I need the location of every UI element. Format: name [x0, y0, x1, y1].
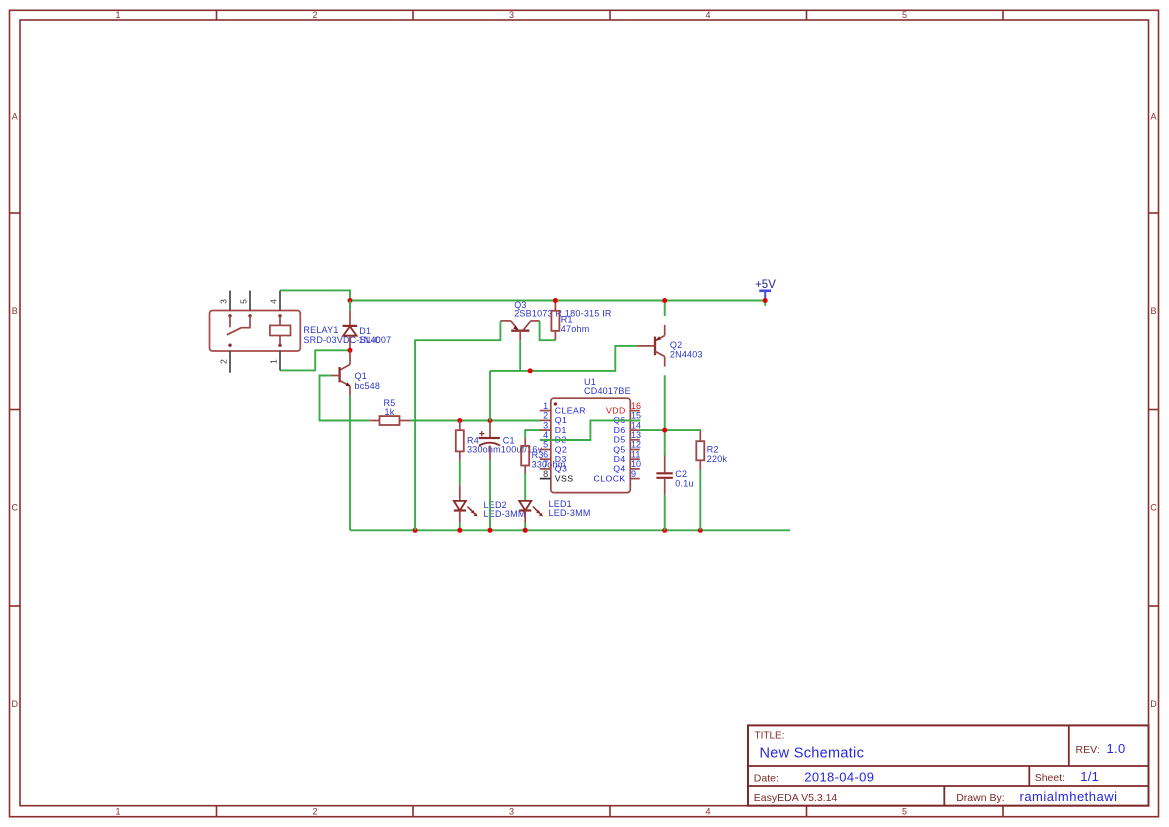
svg-text:C: C: [11, 503, 18, 513]
svg-text:C: C: [1150, 503, 1157, 513]
U1 pin 13 stub: [630, 439, 640, 441]
svg-text:D1: D1: [555, 425, 567, 435]
svg-text:4: 4: [705, 807, 710, 817]
diode D1: [343, 301, 358, 351]
svg-text:REV:: REV:: [1076, 744, 1100, 756]
svg-text:B: B: [12, 306, 18, 316]
svg-text:RELAY1: RELAY1: [303, 325, 338, 335]
svg-text:Date:: Date:: [754, 773, 779, 785]
U1 pin 8 stub: [540, 478, 551, 480]
relay pin 4 line: [279, 291, 281, 311]
title block sheet divider: [1028, 766, 1030, 786]
svg-text:10: 10: [631, 459, 641, 469]
frame tick top 1: [216, 10, 218, 20]
U1 pin 7 stub: [540, 468, 551, 470]
svg-text:D5: D5: [614, 435, 626, 445]
node rail junction R2: [698, 528, 703, 533]
svg-text:Q3: Q3: [555, 464, 568, 474]
frame tick right 2: [1149, 409, 1159, 411]
frame column numbers bottom: [115, 807, 907, 817]
relay pin 5 line: [249, 291, 251, 311]
svg-text:1.0: 1.0: [1107, 741, 1126, 756]
svg-text:3: 3: [543, 420, 548, 430]
wire ground rail bottom: [350, 529, 790, 531]
transistor Q1: [331, 350, 351, 395]
relay contact dots: [228, 314, 281, 347]
wire relay pin1 to D1 bottom: [280, 350, 350, 370]
svg-text:16: 16: [631, 401, 641, 411]
LED1: [519, 501, 543, 523]
U1 pin names right: [594, 405, 626, 483]
U1 pin 2 stub: [540, 419, 551, 421]
svg-text:1k: 1k: [385, 407, 395, 417]
U1 pin 15 stub: [630, 419, 640, 421]
wire Q3 emitter route to rail: [415, 322, 500, 531]
wire +5V rail: [350, 300, 765, 302]
svg-text:LED-3MM: LED-3MM: [549, 508, 591, 518]
U1 pin 11 stub: [630, 458, 640, 460]
svg-text:2: 2: [219, 359, 229, 364]
U1 pin names left: [555, 405, 586, 483]
relay switch lever: [227, 328, 242, 335]
svg-text:D: D: [1150, 699, 1157, 709]
resistor R2: [696, 431, 704, 470]
wire C2 to rail: [664, 495, 666, 531]
wire C1 to rail: [489, 460, 491, 531]
svg-text:14: 14: [631, 420, 641, 430]
svg-text:5: 5: [902, 807, 907, 817]
frame tick top 4: [806, 10, 808, 20]
svg-text:C2: C2: [675, 469, 687, 479]
wire LED2 to rail: [459, 523, 461, 530]
svg-text:6: 6: [543, 449, 548, 459]
svg-text:3: 3: [509, 807, 514, 817]
frame tick bottom 2: [412, 806, 414, 817]
wire R5 to U1 pin2: [410, 420, 541, 422]
U1 pin 6 stub: [540, 458, 551, 460]
relay coil box: [270, 325, 291, 335]
wire Q1 base route: [320, 376, 370, 421]
svg-text:Sheet:: Sheet:: [1035, 772, 1065, 784]
U1 pin 5 stub: [540, 449, 551, 451]
svg-text:4: 4: [543, 430, 548, 440]
IC U1 body: [551, 398, 631, 492]
svg-text:B: B: [1150, 306, 1156, 316]
svg-text:5: 5: [543, 440, 548, 450]
wire Q2 emitter down: [664, 375, 666, 455]
wire base net horizontal: [490, 346, 637, 371]
wire Q3 base net vertical to C1: [489, 371, 491, 421]
svg-text:Q1: Q1: [555, 415, 568, 425]
node D6 junction: [662, 428, 667, 433]
capacitor C2: [656, 456, 672, 495]
svg-text:CLEAR: CLEAR: [555, 405, 586, 415]
wire Q6 to D2 feedback: [540, 420, 640, 440]
wire Q3 base down: [519, 340, 521, 371]
relay RELAY1 body: [210, 311, 301, 352]
svg-text:D4: D4: [614, 454, 626, 464]
svg-text:CD4017BE: CD4017BE: [584, 386, 631, 396]
svg-text:D3: D3: [555, 454, 567, 464]
title block row line 2: [748, 785, 1149, 787]
U1 pin numbers right: [631, 401, 641, 479]
svg-text:CLOCK: CLOCK: [594, 473, 626, 483]
svg-text:4: 4: [269, 299, 279, 304]
title block drawnby divider: [943, 786, 945, 806]
svg-text:New Schematic: New Schematic: [760, 745, 865, 761]
svg-text:4: 4: [705, 10, 710, 20]
frame tick top 5: [1002, 10, 1004, 20]
U1 pin 3 stub: [540, 429, 551, 431]
node base net junction: [528, 368, 533, 373]
svg-text:11: 11: [631, 449, 640, 459]
svg-text:9: 9: [631, 469, 636, 479]
svg-text:A: A: [12, 112, 18, 122]
node rail/D1 junction: [348, 298, 353, 303]
frame tick bottom 1: [216, 806, 218, 817]
frame tick bottom 4: [806, 806, 808, 817]
title block row line 1: [748, 765, 1149, 767]
svg-text:1/1: 1/1: [1080, 769, 1099, 784]
relay switch stub pin5: [241, 316, 250, 328]
relay coil stub bottom: [279, 336, 281, 346]
svg-text:Q1: Q1: [355, 371, 367, 381]
node Q2 collector junction: [662, 298, 667, 303]
svg-text:ramialmhethawi: ramialmhethawi: [1020, 789, 1118, 804]
U1 pin 12 stub: [630, 449, 640, 451]
IC U1 pin1 mark: [554, 402, 557, 405]
svg-text:330ohm: 330ohm: [467, 444, 501, 454]
title block rev divider: [1068, 725, 1070, 766]
svg-text:220k: 220k: [707, 454, 728, 464]
svg-text:1: 1: [115, 807, 120, 817]
relay pin 1 line: [279, 351, 281, 370]
node D1 bottom junction: [348, 348, 353, 353]
wire D6 row: [640, 429, 701, 432]
svg-text:VDD: VDD: [606, 405, 626, 415]
power +5V symbol: [755, 279, 776, 306]
node rail junction C1: [488, 528, 493, 533]
svg-text:2018-04-09: 2018-04-09: [804, 770, 874, 785]
svg-text:Drawn By:: Drawn By:: [956, 792, 1004, 804]
node +5V junction: [763, 298, 768, 303]
resistor R3: [521, 438, 529, 473]
wire R2 to rail: [699, 470, 701, 530]
svg-text:VSS: VSS: [555, 473, 574, 483]
svg-text:R1: R1: [561, 314, 573, 324]
svg-text:bc548: bc548: [355, 381, 381, 391]
frame tick left 3: [10, 605, 21, 607]
wire U1 pin3 to R3: [525, 430, 540, 438]
frame row letters right: [1150, 112, 1157, 710]
U1 pin 10 stub: [630, 468, 640, 470]
svg-text:+5V: +5V: [755, 279, 776, 291]
frame tick right 3: [1149, 605, 1159, 607]
frame tick top 3: [609, 10, 611, 20]
svg-text:Q4: Q4: [613, 464, 626, 474]
svg-text:TITLE:: TITLE:: [755, 731, 785, 742]
resistor R4: [456, 421, 464, 461]
relay coil stub top: [279, 316, 281, 326]
frame column numbers top: [115, 10, 907, 20]
relay pin 3 line: [229, 291, 231, 311]
transistor Q2: [637, 301, 664, 367]
frame tick top 2: [412, 10, 414, 20]
svg-text:8: 8: [543, 469, 548, 479]
frame row letters left: [11, 112, 18, 710]
U1 pin 14 stub: [630, 429, 640, 431]
wire Q1 emitter to ground rail: [349, 395, 351, 530]
U1 pin numbers left: [543, 401, 548, 479]
svg-text:1: 1: [115, 10, 120, 20]
svg-text:12: 12: [631, 440, 641, 450]
svg-text:A: A: [1150, 112, 1156, 122]
wire Q3 collector to R1: [540, 321, 556, 340]
frame tick bottom 3: [609, 806, 611, 817]
svg-text:15: 15: [631, 411, 641, 421]
svg-text:5: 5: [239, 299, 249, 304]
node R4 tap junction: [457, 418, 462, 423]
svg-text:7: 7: [543, 459, 548, 469]
svg-text:1: 1: [269, 359, 279, 364]
frame tick right 1: [1149, 212, 1159, 214]
U1 pin 1 stub: [540, 410, 551, 412]
svg-text:1N4007: 1N4007: [359, 335, 392, 345]
LED2: [454, 485, 478, 523]
node C1 tap junction: [488, 418, 493, 423]
wire LED1 to rail: [524, 523, 526, 530]
svg-text:1: 1: [543, 401, 548, 411]
svg-text:0.1u: 0.1u: [675, 479, 693, 489]
node rail junction LED1: [523, 528, 528, 533]
svg-text:5: 5: [902, 10, 907, 20]
svg-text:3: 3: [219, 299, 229, 304]
node rail junction x415: [413, 528, 418, 533]
svg-text:Q2: Q2: [555, 444, 568, 454]
transistor Q3: [500, 321, 539, 340]
relay pin 2 line: [229, 351, 231, 373]
resistor R1: [551, 301, 559, 341]
wire R3 to LED1: [524, 474, 526, 501]
svg-text:2: 2: [312, 10, 317, 20]
svg-text:3: 3: [509, 10, 514, 20]
title block box: [748, 725, 1149, 805]
frame tick left 1: [10, 212, 21, 214]
node R1 top junction: [553, 298, 558, 303]
node rail junction LED2: [457, 528, 462, 533]
wire relay pin4 to rail: [280, 290, 350, 300]
svg-text:13: 13: [631, 430, 641, 440]
frame tick bottom 5: [1002, 806, 1004, 817]
U1 pin 4 stub: [540, 439, 551, 441]
svg-text:D6: D6: [614, 425, 626, 435]
wire R4 to LED2: [459, 461, 461, 486]
resistor R5: [370, 416, 410, 425]
svg-text:Q5: Q5: [613, 444, 626, 454]
node rail junction C2: [662, 528, 667, 533]
frame tick left 2: [10, 409, 21, 411]
svg-text:EasyEDA V5.3.14: EasyEDA V5.3.14: [754, 792, 838, 804]
svg-text:D: D: [11, 699, 18, 709]
svg-text:47ohm: 47ohm: [561, 324, 590, 334]
svg-text:2: 2: [543, 411, 548, 421]
U1 pin 9 stub: [630, 478, 640, 480]
svg-text:2N4403: 2N4403: [670, 350, 703, 360]
svg-text:2: 2: [312, 807, 317, 817]
U1 pin 16 stub: [630, 410, 640, 412]
relay switch stub pin3: [229, 316, 231, 328]
capacitor C1: [479, 421, 501, 460]
